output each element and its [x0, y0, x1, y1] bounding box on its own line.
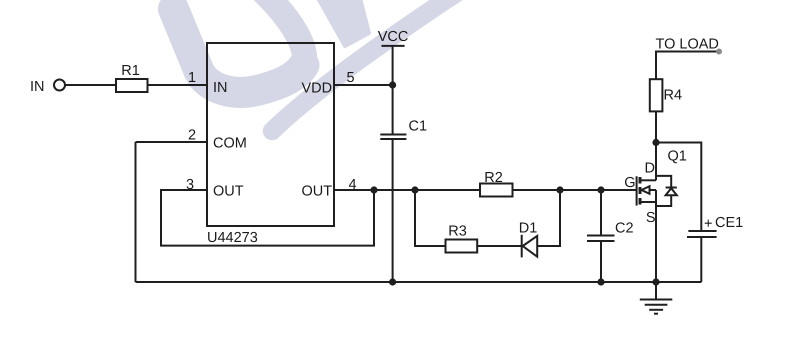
svg-text:U44273: U44273	[207, 230, 258, 246]
wire TO LOAD	[656, 52, 719, 80]
wire pin2 COM left	[136, 141, 208, 143]
node IN terminal circle	[54, 80, 65, 91]
wire drain vertical	[655, 143, 657, 181]
node junction dot C2 ground	[597, 278, 604, 285]
node junction dot D1 top	[556, 186, 563, 193]
wire COM down	[135, 142, 137, 282]
svg-text:3: 3	[186, 177, 194, 193]
svg-text:R3: R3	[448, 224, 467, 240]
svg-text:TO LOAD: TO LOAD	[656, 37, 719, 53]
watermark U glyph	[174, 0, 305, 92]
svg-text:5: 5	[346, 70, 354, 86]
svg-text:D: D	[645, 161, 655, 177]
wire R1 to pin1	[148, 84, 208, 86]
resistor R1	[116, 79, 148, 92]
svg-text:2: 2	[188, 128, 196, 144]
capacitor C2	[587, 235, 615, 237]
wire pin4 OUT row	[334, 189, 480, 191]
svg-text:C1: C1	[409, 119, 428, 135]
node junction dot pin4 loop	[370, 186, 377, 193]
transistor Q1 source stub	[642, 201, 657, 203]
node TO LOAD terminal dot	[716, 49, 722, 55]
power VCC symbol	[382, 45, 405, 47]
node junction dot drain	[652, 139, 659, 146]
transistor Q1 channel segments	[639, 177, 642, 205]
svg-text:VDD: VDD	[302, 81, 333, 97]
wire C2 bottom	[600, 241, 602, 282]
wire pin3 OUT loop	[161, 190, 374, 246]
wire ground bottom row	[136, 281, 702, 283]
resistor R3	[446, 240, 478, 253]
wire D1 up to R2 right node	[537, 190, 560, 246]
svg-text:4: 4	[348, 177, 356, 193]
svg-text:IN: IN	[30, 79, 45, 95]
svg-text:IN: IN	[213, 80, 228, 96]
capacitor CE1	[688, 230, 716, 232]
resistor R2	[480, 184, 513, 197]
wire CE1 bottom	[700, 237, 702, 282]
capacitor C1	[380, 134, 406, 136]
wire VCC down to C1	[392, 46, 394, 135]
diode D1	[521, 235, 523, 258]
watermark L glyph swoosh	[272, 0, 484, 131]
svg-text:R2: R2	[484, 170, 503, 186]
svg-text:R4: R4	[664, 88, 683, 104]
wire R3 to D1	[477, 245, 522, 247]
svg-text:G: G	[624, 175, 635, 191]
wire source vertical	[655, 190, 657, 282]
transistor Q1 body arrow	[649, 189, 657, 191]
ground symbol	[655, 282, 657, 300]
transistor Q1 drain stub	[642, 179, 657, 181]
svg-text:D1: D1	[519, 221, 538, 237]
svg-text:1: 1	[188, 70, 196, 86]
wire drain node to CE1	[656, 143, 701, 232]
wire node down to R3	[415, 190, 446, 246]
node junction dot C1 ground	[389, 278, 396, 285]
node junction dot pin5	[389, 81, 396, 88]
wire R4 to drain node	[655, 111, 657, 142]
svg-text:R1: R1	[121, 63, 140, 79]
svg-text:Q1: Q1	[668, 149, 687, 165]
svg-text:VCC: VCC	[378, 29, 409, 45]
svg-text:CE1: CE1	[715, 215, 743, 231]
diode Q1 body diode	[656, 176, 671, 188]
node junction dot ground	[652, 278, 659, 285]
wire C2 top	[600, 190, 602, 236]
node junction dot R3 branch	[411, 186, 418, 193]
IC U1 body U44273	[207, 43, 334, 226]
wire R2 to gate	[513, 189, 637, 191]
svg-text:OUT: OUT	[213, 184, 244, 200]
resistor R4	[650, 79, 663, 111]
svg-text:+: +	[704, 216, 712, 232]
wire C1 to ground row	[392, 139, 394, 282]
wire IN to R1	[65, 84, 116, 86]
watermark L glyph stem	[318, 0, 369, 46]
svg-text:OUT: OUT	[302, 184, 333, 200]
svg-text:C2: C2	[615, 221, 634, 237]
transistor Q1 gate bar	[636, 176, 638, 205]
svg-text:COM: COM	[213, 136, 247, 152]
svg-text:S: S	[646, 210, 656, 226]
wire pin5 VDD to VCC node	[334, 84, 393, 86]
node junction dot C2 top	[597, 186, 604, 193]
